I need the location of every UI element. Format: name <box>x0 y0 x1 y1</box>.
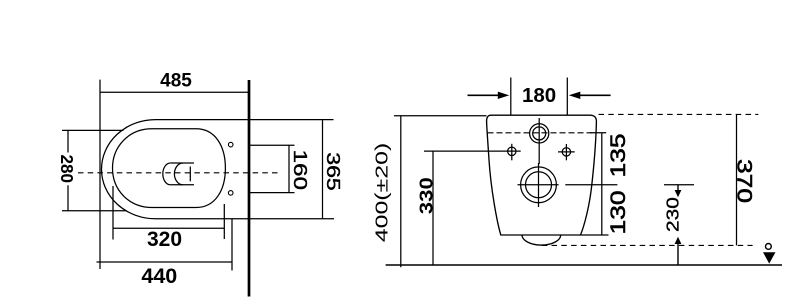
dim 370 line <box>736 114 738 245</box>
wall line <box>248 80 251 297</box>
dim 365 top extension <box>249 119 334 121</box>
top dashed extension (370) <box>599 113 759 115</box>
dim 320 right extension <box>223 204 225 239</box>
dim 230 down arrow <box>677 185 679 191</box>
dim 330 top tick / left hole crosshair <box>424 150 521 152</box>
bottom dashed extension (370/230) <box>542 244 753 246</box>
dashed centerline <box>78 172 281 174</box>
svg-text:230: 230 <box>663 197 683 232</box>
drain horizontal crosshair <box>518 184 559 186</box>
ground symbol triangle <box>763 252 776 263</box>
dim 485 line <box>100 91 249 93</box>
dim 320 left extension <box>112 186 114 240</box>
svg-text:135: 135 <box>606 133 630 177</box>
body bottom edge extension to dim 130 <box>581 234 609 236</box>
drain symbol vertical bar <box>189 167 191 182</box>
dim 135/130 mid tick <box>565 184 617 186</box>
svg-text:400(±20): 400(±20) <box>371 143 391 243</box>
svg-text:440: 440 <box>141 264 177 288</box>
outlet pipe arc <box>522 235 561 245</box>
mounting hole top <box>228 142 233 147</box>
toilet outer outline bottom edge <box>156 218 250 220</box>
drain vertical crosshair <box>538 163 540 207</box>
drain symbol outer arc <box>163 163 171 185</box>
dim 135/130 line <box>601 133 603 235</box>
dim 365 line <box>322 120 324 219</box>
dim 180 right extension <box>566 78 568 116</box>
drain symbol inner arc <box>174 163 183 185</box>
svg-text:485: 485 <box>160 70 192 91</box>
inlet vertical tick <box>538 118 540 164</box>
inlet circle outer <box>530 124 549 143</box>
fixing hole right <box>562 148 570 156</box>
svg-text:280: 280 <box>57 154 77 183</box>
dim 180 right arrow <box>580 94 611 96</box>
dim 230 up arrow <box>677 244 679 265</box>
toilet outer outline top edge <box>156 119 250 121</box>
inlet circle inner <box>533 127 546 140</box>
mounting hole bottom <box>228 191 233 196</box>
dim 180 left extension <box>510 78 512 116</box>
ground symbol circle <box>766 244 772 250</box>
dim 160 line <box>288 145 290 192</box>
toilet inner rim oval <box>113 129 226 208</box>
svg-text:370: 370 <box>733 159 756 203</box>
dim 485/440 left extension line <box>99 80 101 269</box>
dim 135 top tick <box>590 132 606 134</box>
dim 180 left arrow <box>468 94 499 96</box>
fixing hole left vertical crosshair <box>511 144 513 161</box>
drain symbol top line <box>170 162 194 164</box>
svg-text:365: 365 <box>323 152 343 191</box>
dim 440 line <box>97 261 233 263</box>
toilet body rear outline <box>487 115 597 235</box>
fixing hole right vertical crosshair <box>565 144 567 160</box>
svg-text:330: 330 <box>416 177 437 214</box>
drain circle outer <box>521 167 557 203</box>
dim 160 bottom extension <box>249 192 295 194</box>
toilet outer outline left arc <box>102 120 156 219</box>
drain circle inner <box>526 172 552 198</box>
svg-text:130: 130 <box>606 190 630 234</box>
dim 440 right extension <box>231 219 233 271</box>
dim 330 line <box>432 151 434 265</box>
svg-text:180: 180 <box>522 84 556 107</box>
floor line <box>386 264 782 266</box>
body internal dashed line <box>488 132 592 134</box>
svg-text:160: 160 <box>290 149 311 190</box>
dim 365 bottom extension <box>249 218 334 220</box>
fixing hole right horizontal crosshair <box>558 151 575 153</box>
dim 280 top extension <box>62 129 124 131</box>
dim 400 top tick <box>394 115 487 117</box>
dim 230 top tick <box>664 184 694 186</box>
dim 280 bottom extension <box>62 210 126 212</box>
dim 320 line <box>113 227 224 229</box>
drain symbol bottom line <box>170 184 194 186</box>
svg-text:320: 320 <box>147 228 182 251</box>
fixing hole left <box>508 147 516 155</box>
dim 400 line <box>400 116 402 268</box>
dim 280 line <box>67 130 69 210</box>
dim 160 top extension <box>249 144 295 146</box>
